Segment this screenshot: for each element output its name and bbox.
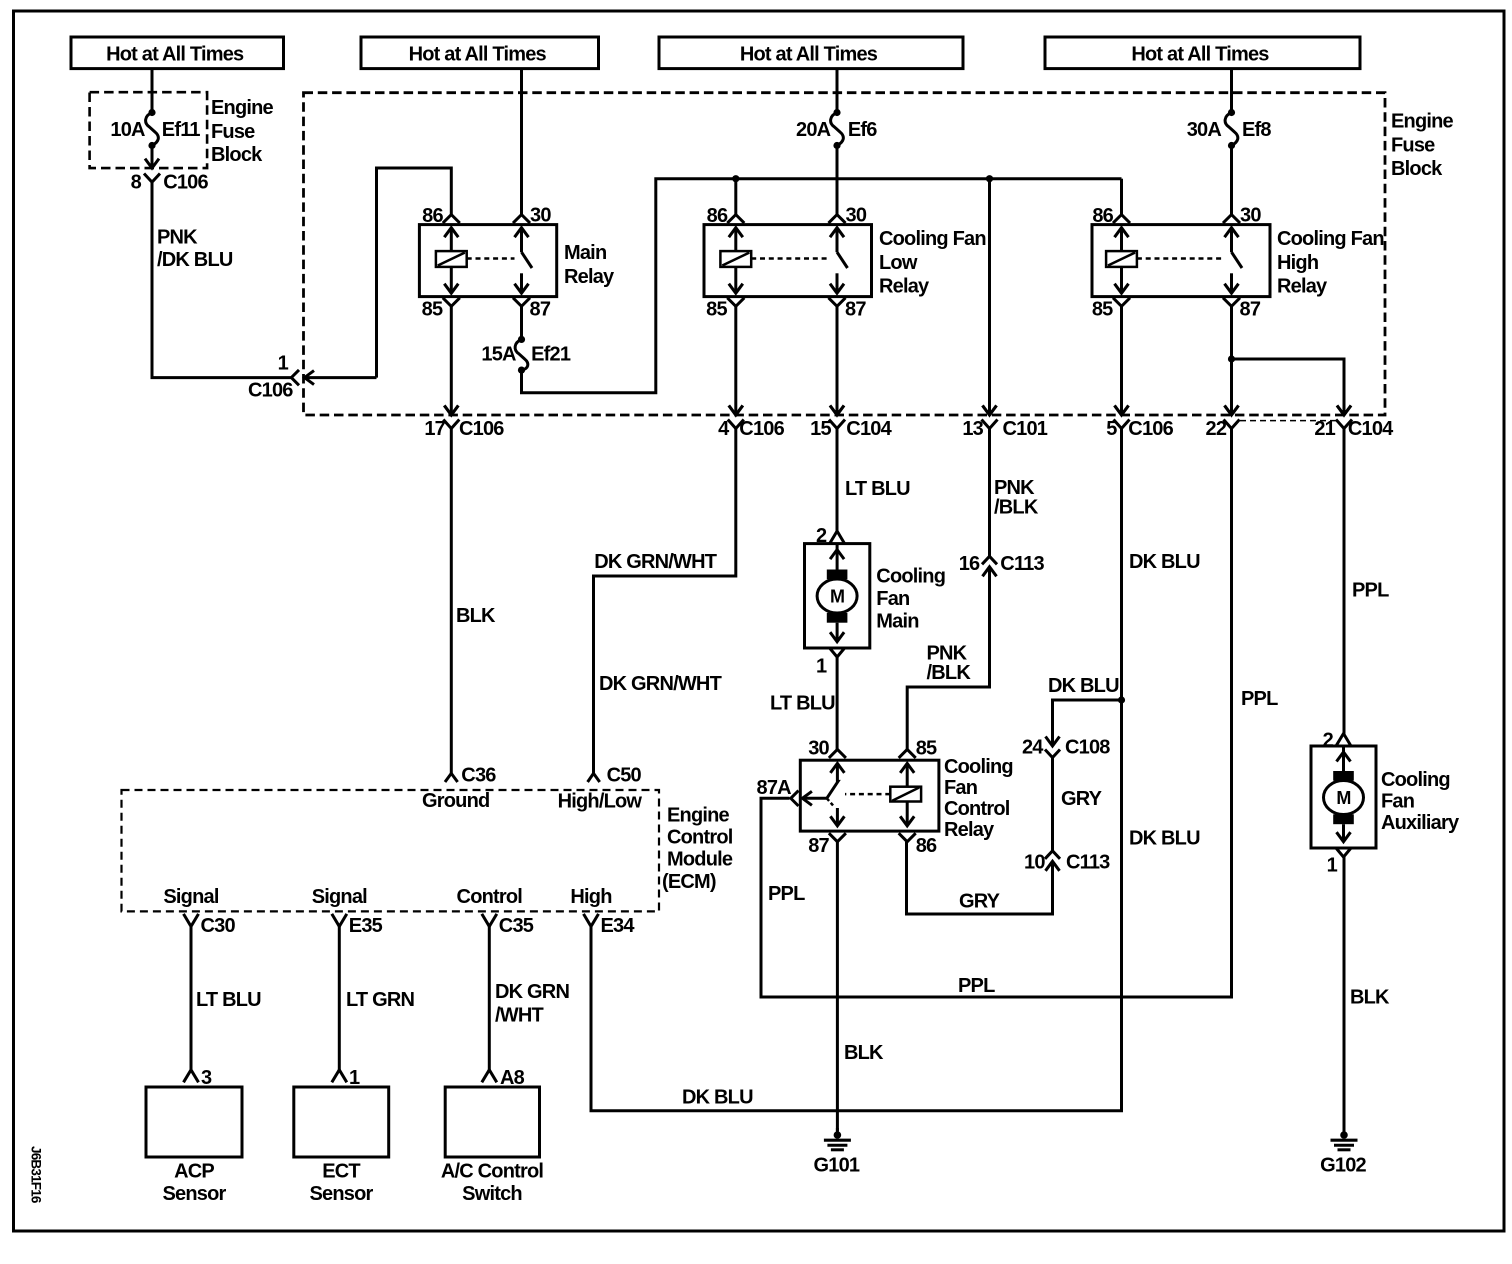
svg-text:(ECM): (ECM): [662, 871, 716, 893]
svg-text:DK GRN/WHT: DK GRN/WHT: [594, 551, 717, 573]
svg-text:Module: Module: [667, 849, 733, 871]
svg-text:24: 24: [1022, 737, 1044, 759]
svg-text:1: 1: [1327, 855, 1338, 877]
svg-text:87: 87: [808, 835, 829, 857]
svg-text:Relay: Relay: [879, 276, 930, 298]
svg-text:LT BLU: LT BLU: [845, 478, 910, 500]
svg-text:PPL: PPL: [768, 883, 805, 905]
svg-text:C106: C106: [248, 379, 293, 401]
svg-text:/BLK: /BLK: [994, 497, 1039, 519]
svg-text:G101: G101: [814, 1155, 860, 1177]
svg-text:DK BLU: DK BLU: [1129, 828, 1200, 850]
svg-text:87: 87: [1240, 299, 1261, 321]
svg-text:17: 17: [424, 418, 445, 440]
svg-text:E35: E35: [349, 915, 383, 937]
svg-text:30: 30: [808, 738, 829, 760]
svg-text:E34: E34: [601, 915, 636, 937]
svg-text:Main: Main: [564, 242, 606, 264]
svg-text:2: 2: [1323, 729, 1334, 751]
svg-text:PPL: PPL: [1352, 580, 1389, 602]
svg-text:85: 85: [916, 738, 937, 760]
svg-text:PPL: PPL: [1241, 688, 1278, 710]
svg-text:PNK: PNK: [157, 227, 198, 249]
svg-text:Fuse: Fuse: [211, 121, 255, 143]
svg-text:Main: Main: [876, 611, 918, 633]
svg-text:High: High: [570, 886, 611, 908]
svg-text:2: 2: [816, 525, 827, 547]
svg-text:86: 86: [707, 205, 728, 227]
svg-text:J6B31F16: J6B31F16: [29, 1146, 44, 1204]
svg-text:30: 30: [530, 205, 551, 227]
svg-text:Fuse: Fuse: [1391, 135, 1435, 157]
svg-text:C30: C30: [201, 915, 236, 937]
svg-text:/DK BLU: /DK BLU: [157, 249, 233, 271]
svg-text:5: 5: [1106, 418, 1117, 440]
svg-text:A/C Control: A/C Control: [441, 1161, 544, 1183]
svg-text:M: M: [830, 587, 844, 607]
svg-text:15: 15: [810, 418, 831, 440]
svg-text:GRY: GRY: [959, 891, 1001, 913]
svg-text:86: 86: [422, 205, 443, 227]
svg-text:Relay: Relay: [564, 266, 615, 288]
svg-text:30: 30: [1240, 205, 1261, 227]
svg-text:Signal: Signal: [163, 886, 218, 908]
svg-text:Hot at All Times: Hot at All Times: [106, 44, 244, 66]
svg-text:Engine: Engine: [667, 805, 730, 827]
svg-text:C106: C106: [459, 418, 504, 440]
svg-text:LT BLU: LT BLU: [770, 693, 835, 715]
svg-text:/WHT: /WHT: [495, 1005, 543, 1027]
svg-text:LT GRN: LT GRN: [346, 989, 415, 1011]
svg-text:Cooling Fan: Cooling Fan: [879, 228, 986, 250]
svg-text:C113: C113: [1000, 553, 1044, 575]
svg-text:LT BLU: LT BLU: [196, 989, 261, 1011]
svg-text:22: 22: [1206, 418, 1227, 440]
svg-text:PNK: PNK: [994, 477, 1035, 499]
svg-text:C106: C106: [163, 172, 208, 194]
svg-text:DK BLU: DK BLU: [682, 1087, 753, 1109]
svg-text:Auxiliary: Auxiliary: [1381, 812, 1460, 834]
svg-text:87: 87: [530, 299, 551, 321]
svg-text:87A: 87A: [757, 777, 792, 799]
svg-text:C36: C36: [461, 765, 496, 787]
svg-text:Fan: Fan: [1381, 791, 1414, 813]
svg-text:Control: Control: [457, 886, 523, 908]
svg-text:Switch: Switch: [462, 1183, 522, 1205]
svg-text:ACP: ACP: [174, 1161, 214, 1183]
svg-text:C113: C113: [1066, 851, 1110, 873]
svg-text:Ground: Ground: [422, 790, 489, 812]
svg-text:Cooling Fan: Cooling Fan: [1277, 228, 1384, 250]
svg-text:Fan: Fan: [876, 588, 909, 610]
svg-text:C106: C106: [739, 418, 784, 440]
svg-text:85: 85: [1092, 299, 1113, 321]
svg-text:C106: C106: [1128, 418, 1173, 440]
svg-text:C35: C35: [499, 915, 534, 937]
svg-text:8: 8: [131, 172, 142, 194]
svg-text:DK BLU: DK BLU: [1129, 551, 1200, 573]
svg-text:Hot at All Times: Hot at All Times: [1131, 44, 1269, 66]
svg-text:85: 85: [706, 299, 727, 321]
svg-text:Ef8: Ef8: [1242, 119, 1271, 141]
svg-text:Sensor: Sensor: [162, 1183, 226, 1205]
svg-text:30: 30: [846, 205, 867, 227]
svg-text:86: 86: [1092, 205, 1113, 227]
svg-text:Relay: Relay: [1277, 276, 1328, 298]
svg-text:1: 1: [278, 353, 289, 375]
svg-text:Block: Block: [211, 144, 263, 166]
svg-text:Ef21: Ef21: [531, 344, 571, 366]
svg-text:Sensor: Sensor: [309, 1183, 373, 1205]
svg-text:10A: 10A: [110, 119, 145, 141]
svg-text:Control: Control: [667, 827, 733, 849]
svg-text:10: 10: [1024, 851, 1045, 873]
svg-text:13: 13: [962, 418, 983, 440]
svg-text:ECT: ECT: [322, 1161, 360, 1183]
svg-text:1: 1: [816, 656, 827, 678]
svg-text:86: 86: [916, 835, 937, 857]
svg-text:DK BLU: DK BLU: [1048, 675, 1119, 697]
svg-text:Hot at All Times: Hot at All Times: [409, 44, 547, 66]
svg-text:BLK: BLK: [456, 605, 496, 627]
svg-text:C104: C104: [846, 418, 892, 440]
svg-text:Relay: Relay: [944, 819, 995, 841]
svg-text:C50: C50: [607, 765, 642, 787]
svg-text:4: 4: [718, 418, 730, 440]
svg-text:Block: Block: [1391, 158, 1443, 180]
svg-text:BLK: BLK: [1350, 987, 1390, 1009]
svg-text:Engine: Engine: [211, 97, 274, 119]
svg-text:Hot at All Times: Hot at All Times: [740, 44, 878, 66]
svg-text:GRY: GRY: [1061, 788, 1103, 810]
svg-text:Cooling: Cooling: [876, 566, 945, 588]
svg-text:High/Low: High/Low: [558, 791, 643, 813]
svg-text:/BLK: /BLK: [927, 662, 972, 684]
svg-text:20A: 20A: [796, 119, 831, 141]
svg-text:16: 16: [959, 553, 980, 575]
svg-text:PPL: PPL: [958, 975, 995, 997]
svg-text:Cooling: Cooling: [1381, 769, 1450, 791]
svg-text:DK GRN/WHT: DK GRN/WHT: [599, 673, 722, 695]
svg-text:BLK: BLK: [844, 1042, 884, 1064]
svg-text:C104: C104: [1348, 418, 1394, 440]
svg-text:DK GRN: DK GRN: [495, 981, 569, 1003]
svg-text:Ef6: Ef6: [848, 119, 877, 141]
svg-text:Low: Low: [879, 252, 918, 274]
svg-text:15A: 15A: [481, 344, 516, 366]
svg-text:Signal: Signal: [312, 886, 367, 908]
svg-text:21: 21: [1314, 418, 1335, 440]
svg-text:C108: C108: [1065, 737, 1110, 759]
svg-text:30A: 30A: [1187, 119, 1222, 141]
svg-text:Engine: Engine: [1391, 110, 1454, 132]
svg-text:M: M: [1336, 788, 1350, 808]
svg-text:87: 87: [845, 299, 866, 321]
svg-text:C101: C101: [1003, 418, 1048, 440]
svg-text:Ef11: Ef11: [162, 119, 201, 141]
svg-text:85: 85: [422, 299, 443, 321]
svg-text:High: High: [1277, 252, 1318, 274]
svg-text:Control: Control: [944, 798, 1010, 820]
svg-text:Fan: Fan: [944, 777, 977, 799]
svg-text:G102: G102: [1320, 1155, 1366, 1177]
svg-text:Cooling: Cooling: [944, 756, 1013, 778]
